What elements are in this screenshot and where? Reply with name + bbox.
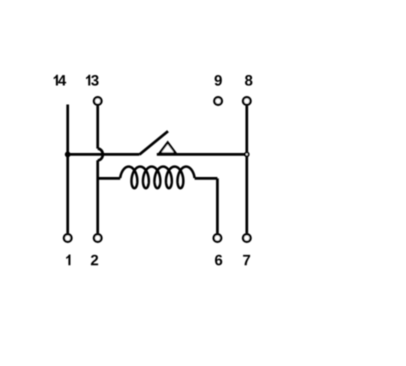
pin 13 to pin 2 wire (upper segment) xyxy=(96,106,99,149)
switch S1 arm (movable contact) xyxy=(139,131,168,154)
coil stub wire left xyxy=(98,177,121,180)
pin 13 to pin 2 wire (lower segment) xyxy=(96,160,99,233)
pin 1 terminal circle xyxy=(64,234,72,242)
wire hop over switch-common wire (no connection) xyxy=(98,149,103,161)
pin 7 terminal circle xyxy=(243,234,251,242)
pin 14 lead wire xyxy=(66,105,69,234)
pin 13 terminal circle xyxy=(94,97,102,105)
pin label 14 xyxy=(54,75,67,86)
pin 8 terminal circle xyxy=(243,97,251,105)
relay coil L1 xyxy=(120,167,194,189)
pin label 2 xyxy=(91,255,98,265)
pin 2 terminal circle xyxy=(94,234,102,242)
wire: switch common from node A to switch pivot xyxy=(68,153,140,156)
pin label 8 xyxy=(245,75,252,86)
pin label 9 xyxy=(215,75,222,86)
pin label 13 xyxy=(86,75,99,86)
pin 8 to pin 7 lead wire xyxy=(245,106,248,234)
switch S1 contact marker (triangle) xyxy=(159,142,176,153)
wire: switch contact side to node B xyxy=(157,153,247,156)
pin 6 lead wire xyxy=(216,178,219,233)
node A junction dot (pins 14/1 to switch common) xyxy=(65,152,71,158)
pin label 6 xyxy=(215,255,222,266)
pin label 1 xyxy=(66,254,70,265)
pin 9 terminal circle xyxy=(214,97,222,105)
node B junction (pins 8/7 to switch contact wire) xyxy=(245,153,249,157)
pin 6 terminal circle xyxy=(214,234,222,242)
coil stub wire right xyxy=(195,177,218,180)
pin label 7 xyxy=(243,255,250,265)
